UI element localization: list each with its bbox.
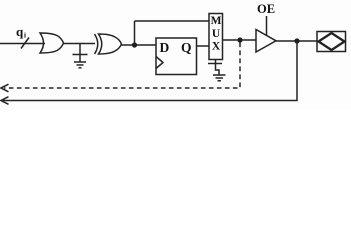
ground G4 below MUX (stem with crossbar, jogged): [208, 60, 226, 81]
wire: OE control line down to buffer: [266, 16, 268, 35]
wire: buffer output to pad: [276, 40, 317, 42]
svg-text:U: U: [212, 28, 221, 40]
wire: dashed scan line from node B down and left: [4, 43, 240, 89]
svg-text:Q: Q: [181, 40, 192, 55]
node label OE: [257, 2, 275, 16]
junction node A (XOR output): [132, 42, 137, 47]
wire: flip-flop Q output to MUX lower input: [197, 45, 210, 47]
svg-text:X: X: [212, 41, 221, 53]
wire: top rail from node A to MUX upper input: [135, 20, 210, 22]
XOR gate G3 (input arc): [95, 34, 98, 54]
svg-text:OE: OE: [257, 2, 275, 16]
wire: OR gate output to XOR gate input: [64, 43, 96, 45]
junction node C (pad tap): [294, 38, 299, 43]
OR gate G1: [40, 33, 64, 53]
svg-text:q: q: [16, 24, 24, 39]
wire: MUX output to tri-state buffer input: [223, 39, 257, 41]
bus slash on input wire: [21, 38, 29, 49]
svg-text:M: M: [211, 15, 222, 27]
junction node B (scan-out tap): [237, 37, 242, 42]
D flip-flop U1 labels D and Q: [160, 40, 192, 55]
node label q (input bus): [16, 24, 26, 40]
wire: solid feedback from node C down and left: [3, 41, 297, 101]
D flip-flop U1 (box): [156, 38, 197, 75]
arrowhead of dashed scan line: [1, 84, 9, 92]
pad P1 (diamond): [319, 33, 345, 50]
D flip-flop U1 clock triangle: [156, 57, 163, 69]
mux U2 labels M U X: [211, 15, 222, 53]
mux U2 (box): [209, 14, 223, 60]
wire: vertical from node A up to top rail: [134, 21, 136, 45]
wire: input bus from left edge to OR gate: [0, 43, 45, 45]
XOR gate G3 (body): [99, 34, 122, 54]
pad P1 (box): [317, 32, 346, 52]
svg-text:D: D: [160, 40, 170, 55]
ground G2 tap on OR-XOR wire (stem with crossbar): [73, 44, 88, 68]
tri-state buffer U3: [256, 30, 276, 53]
svg-text:i: i: [24, 32, 26, 40]
arrowhead of solid feedback line: [1, 97, 9, 105]
wire: XOR output to D flip-flop input: [122, 44, 157, 46]
